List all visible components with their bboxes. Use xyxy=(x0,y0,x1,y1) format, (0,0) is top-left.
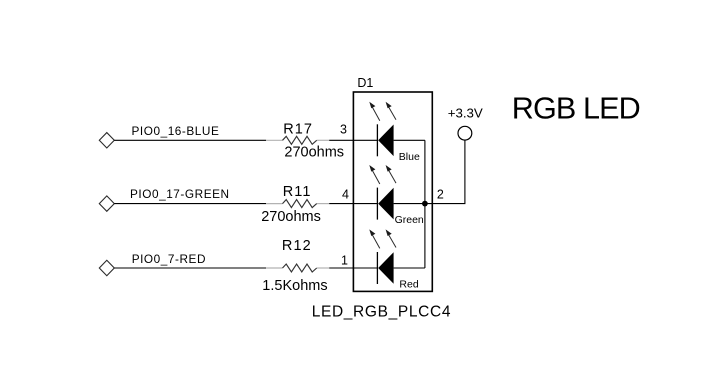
svg-text:PIO0_17-GREEN: PIO0_17-GREEN xyxy=(130,187,230,201)
LED green emission arrow 1 xyxy=(369,165,380,184)
LED green: anode wire xyxy=(353,203,377,205)
LED red: anode wire xyxy=(353,267,377,269)
resistor R11 270ohms xyxy=(261,184,329,225)
LED red emission arrow 2 xyxy=(386,229,396,247)
wire R11 to pin 4 xyxy=(329,203,353,205)
wire net PIO0_16-BLUE xyxy=(114,139,266,141)
wire net PIO0_17-GREEN xyxy=(114,203,266,205)
LED green cathode bar xyxy=(376,188,378,220)
resistor R12 1.5Kohms xyxy=(262,238,329,294)
svg-text:R12: R12 xyxy=(282,238,312,254)
svg-text:3: 3 xyxy=(340,123,347,137)
LED green triangle xyxy=(378,188,393,220)
svg-text:+3.3V: +3.3V xyxy=(448,106,483,121)
svg-text:Blue: Blue xyxy=(399,151,420,163)
port PIO0_17-GREEN xyxy=(99,187,229,212)
LED blue emission arrow 1 xyxy=(369,102,380,121)
LED blue triangle xyxy=(378,125,393,157)
svg-text:270ohms: 270ohms xyxy=(261,209,321,225)
svg-text:RGB LED: RGB LED xyxy=(512,92,640,126)
LED red triangle xyxy=(378,252,393,284)
port PIO0_7-RED xyxy=(99,252,206,276)
LED red emission arrow 1 xyxy=(369,229,380,248)
LED red cathode bar xyxy=(376,252,378,284)
junction node pin 2 xyxy=(422,201,428,207)
svg-text:R11: R11 xyxy=(283,184,312,200)
LED green emission arrow 2 xyxy=(386,165,396,183)
svg-text:1: 1 xyxy=(341,253,348,267)
svg-text:LED_RGB_PLCC4: LED_RGB_PLCC4 xyxy=(312,303,451,320)
LED red to bus wire xyxy=(394,267,425,269)
LED green to bus wire xyxy=(394,203,425,205)
svg-text:PIO0_16-BLUE: PIO0_16-BLUE xyxy=(132,124,220,138)
resistor R17 270ohms xyxy=(266,122,344,161)
port PIO0_16-BLUE xyxy=(99,124,219,148)
svg-text:2: 2 xyxy=(437,188,444,202)
svg-text:D1: D1 xyxy=(357,76,373,90)
svg-text:Red: Red xyxy=(399,279,418,291)
LED package D1 body xyxy=(353,92,432,291)
wire net PIO0_7-RED xyxy=(114,267,266,269)
svg-text:R17: R17 xyxy=(283,122,313,138)
svg-text:270ohms: 270ohms xyxy=(284,145,344,161)
common anode bus wire xyxy=(424,140,426,268)
LED blue emission arrow 2 xyxy=(386,102,396,120)
wire pin 2 to +3.3V xyxy=(425,140,465,204)
power +3.3V symbol xyxy=(458,126,472,140)
svg-text:Green: Green xyxy=(395,214,424,226)
svg-text:4: 4 xyxy=(342,187,349,201)
svg-text:PIO0_7-RED: PIO0_7-RED xyxy=(132,252,206,266)
svg-text:1.5Kohms: 1.5Kohms xyxy=(262,278,327,294)
wire R12 to pin 1 xyxy=(329,267,353,269)
LED blue cathode bar xyxy=(376,124,378,156)
LED blue to bus wire xyxy=(394,139,425,141)
wire R17 to pin 3 xyxy=(329,139,353,141)
LED blue: anode wire xyxy=(353,139,377,141)
